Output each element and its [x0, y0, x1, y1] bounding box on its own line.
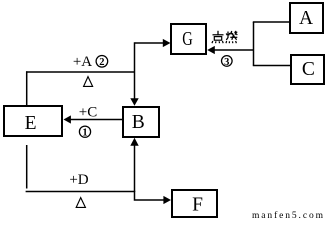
svg-text:1: 1: [82, 127, 87, 138]
svg-text:+C: +C: [79, 105, 97, 121]
svg-text:C: C: [302, 59, 315, 80]
svg-text:manfen5.com: manfen5.com: [252, 210, 324, 221]
svg-text:+D: +D: [69, 172, 88, 188]
svg-text:2: 2: [99, 57, 104, 68]
svg-text:+A: +A: [73, 54, 92, 70]
svg-text:B: B: [132, 112, 145, 133]
svg-text:G: G: [182, 29, 193, 50]
svg-text:F: F: [192, 195, 203, 216]
svg-text:A: A: [299, 8, 313, 29]
svg-text:3: 3: [224, 57, 229, 68]
svg-text:E: E: [25, 113, 37, 134]
